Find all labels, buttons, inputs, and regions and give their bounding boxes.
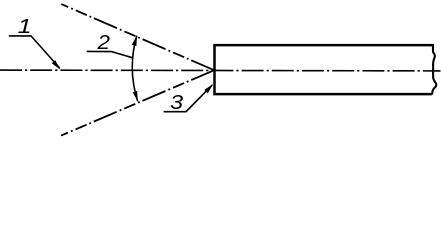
upper beam envelope dashed line bbox=[61, 4, 214, 70]
svg-text:1: 1 bbox=[17, 15, 31, 38]
optical axis centerline bbox=[0, 69, 441, 72]
laser housing rectangle (broken at right) bbox=[215, 45, 434, 94]
arc bottom arrowhead bbox=[133, 91, 138, 102]
lower beam envelope dashed line bbox=[61, 70, 214, 135]
label 1 leader with underline bbox=[9, 36, 60, 68]
label 3 leader with underline bbox=[164, 85, 213, 112]
label 3 arrowhead bbox=[204, 84, 213, 93]
label 1 arrowhead bbox=[52, 60, 61, 69]
angle dimension arc for label 2 bbox=[132, 36, 137, 102]
label 2 leader with underline bbox=[87, 51, 133, 57]
svg-text:2: 2 bbox=[96, 32, 110, 54]
svg-text:3: 3 bbox=[170, 91, 183, 114]
break line at right edge of housing bbox=[432, 44, 436, 95]
arc top arrowhead bbox=[132, 35, 137, 46]
